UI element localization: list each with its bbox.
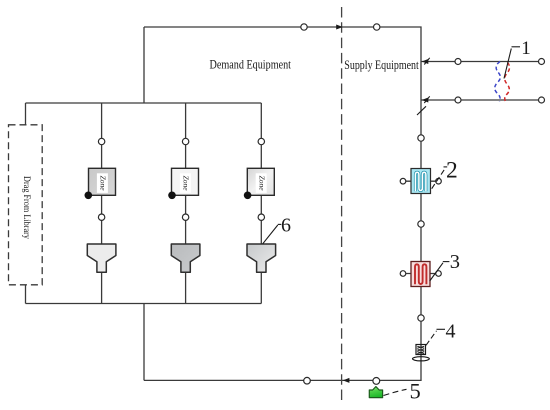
svg-text:Zone: Zone [182,176,191,192]
svg-text:Zone: Zone [99,176,108,192]
svg-text:Supply Equipment: Supply Equipment [344,58,419,72]
svg-text:Zone: Zone [257,176,266,192]
svg-text:3: 3 [450,251,460,273]
svg-text:1: 1 [521,38,531,59]
svg-text:Demand Equipment: Demand Equipment [210,57,292,71]
svg-text:4: 4 [446,320,456,342]
svg-text:2: 2 [446,157,458,183]
svg-text:6: 6 [281,214,291,236]
svg-text:Drag From Library: Drag From Library [22,176,32,239]
svg-text:5: 5 [410,378,421,403]
